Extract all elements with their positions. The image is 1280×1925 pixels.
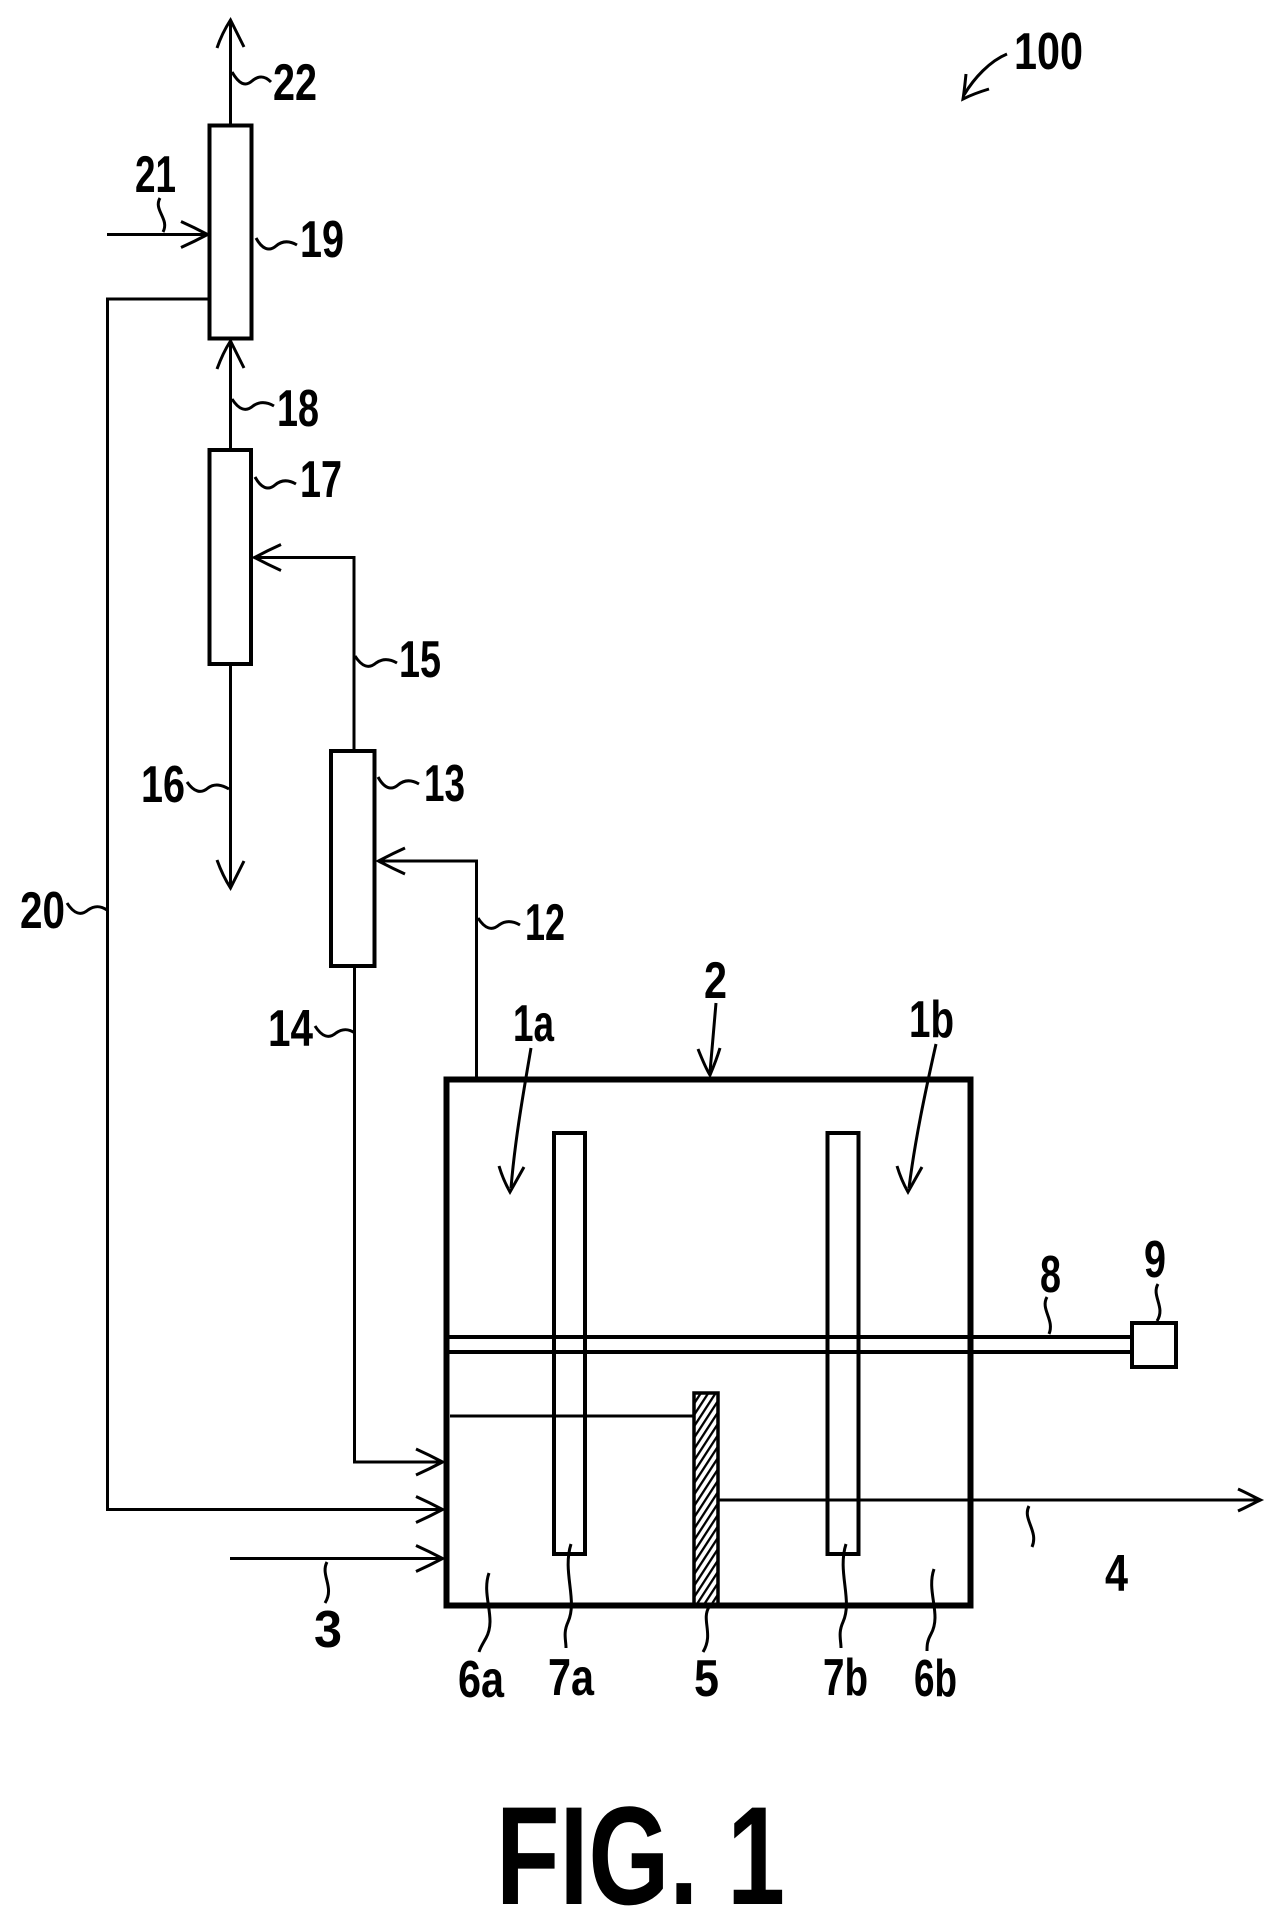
arrowhead of wire 16 [217,860,244,888]
leader squiggle for 4 [1027,1506,1033,1547]
arrowhead of wire 15 [255,545,282,571]
wire 16 (bottoms output of column 17) [229,666,232,886]
svg-text:12: 12 [525,894,565,952]
svg-text:16: 16 [141,756,185,814]
svg-text:21: 21 [135,146,176,204]
column 17 [210,450,252,664]
svg-text:9: 9 [1144,1231,1166,1289]
leader squiggle for 5 [703,1607,709,1652]
svg-text:3: 3 [314,1601,342,1659]
separator 5 (hatched) [694,1393,718,1605]
wire 20 (recycle from column 19 down into tank) [108,299,443,1510]
svg-text:6a: 6a [458,1651,505,1709]
leader squiggle for 7a [565,1544,571,1648]
leader squiggle for 13 [378,777,419,788]
wire 14 (column 13 bottoms into tank) [355,968,443,1462]
leader arrow for 100 [964,54,1007,95]
arrowhead of wire 18 [217,341,244,369]
electrode 7b [828,1133,859,1554]
wire 22 (overhead output of column 19) [229,22,232,124]
wire 18 (column 17 top to column 19 bottom) [229,342,232,448]
leader squiggle for 19 [256,238,297,249]
leader arrow for 2 [710,1003,716,1072]
leader squiggle for 6b [927,1569,935,1651]
svg-text:100: 100 [1014,23,1083,81]
leader squiggle for 16 [187,782,229,791]
leader squiggle for 6a [479,1573,490,1652]
svg-text:8: 8 [1040,1246,1061,1304]
wire 15 (from line 12 junction into column 17) [255,558,354,750]
svg-text:FIG. 1: FIG. 1 [496,1777,785,1925]
tank 2 outer wall [447,1080,971,1606]
svg-text:20: 20 [20,882,65,940]
leader squiggle for 18 [232,399,274,409]
leader squiggle for 21 [158,198,164,232]
svg-text:18: 18 [277,380,319,438]
wire 3 (feed into tank) [230,1557,442,1560]
svg-text:14: 14 [268,1000,313,1058]
arrowhead of wire 21 [181,222,208,248]
arrowhead of wire 22 [217,20,244,48]
leader squiggle for 14 [315,1026,355,1036]
svg-text:22: 22 [273,54,317,112]
column 19 [210,126,252,339]
leader squiggle for 22 [232,72,271,84]
leader squiggle for 7b [840,1544,846,1648]
svg-text:4: 4 [1105,1545,1128,1603]
arrowhead of wire 12 [379,848,406,874]
liquid level line in compartment 6a [450,1415,694,1418]
svg-text:1a: 1a [513,995,555,1053]
leader squiggle for 20 [67,903,107,913]
svg-text:13: 13 [424,755,465,813]
svg-text:6b: 6b [914,1650,957,1708]
arrowhead of wire 20 [416,1497,443,1523]
electrode 7a [554,1133,585,1554]
arrowhead of wire 14 [416,1449,443,1475]
leader squiggle for 3 [325,1562,329,1603]
leader squiggle for 15 [355,656,397,666]
leader arrow for 1a [511,1048,531,1188]
svg-text:2: 2 [704,952,727,1010]
wire 21 (feed into column 19) [107,233,207,236]
svg-text:19: 19 [300,211,344,269]
box 9 (motor) [1132,1323,1176,1367]
svg-text:15: 15 [399,631,441,689]
svg-text:17: 17 [300,451,342,509]
svg-text:7b: 7b [823,1649,868,1707]
column 13 [331,751,375,966]
svg-text:7a: 7a [548,1649,595,1707]
shaft 8 double line [447,1335,1130,1339]
arrowhead of wire 3 [416,1546,443,1572]
leader arrow for 1b [909,1044,936,1188]
leader squiggle for 8 [1045,1297,1050,1334]
wire 4 (product outlet) [719,1499,1260,1502]
leader squiggle for 9 [1156,1284,1160,1321]
leader squiggle for 12 [478,918,520,928]
svg-text:1b: 1b [909,991,954,1049]
leader squiggle for 17 [255,477,296,488]
svg-text:5: 5 [694,1650,719,1708]
arrowhead of wire 4 [1238,1489,1261,1511]
wire 12 (from tank top into column 13) [379,861,477,1077]
